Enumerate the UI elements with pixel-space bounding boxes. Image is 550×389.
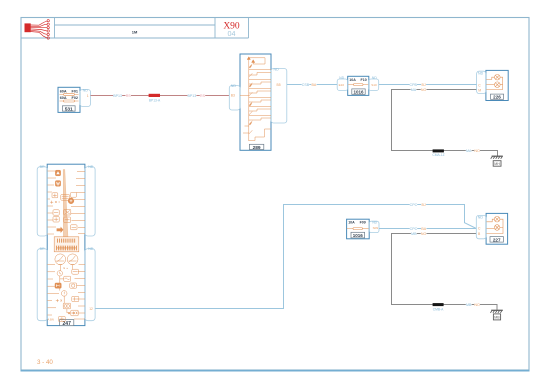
svg-text:10A: 10A <box>349 78 356 82</box>
svg-text:NO: NO <box>421 88 427 92</box>
svg-text:BP13-A: BP13-A <box>149 99 161 103</box>
svg-text:RS: RS <box>200 94 206 98</box>
wire CPC (fuse F09 to 227) <box>379 228 476 230</box>
svg-text:F09: F09 <box>360 220 366 224</box>
svg-text:CMB-A: CMB-A <box>433 308 444 312</box>
wire label MB NO upper <box>411 231 427 236</box>
svg-text:BP13: BP13 <box>113 94 122 98</box>
trunk link lines <box>60 265 73 313</box>
svg-text:04: 04 <box>228 29 236 38</box>
svg-text:NO: NO <box>474 303 480 307</box>
svg-text:MA: MA <box>411 88 417 92</box>
svg-text:BR: BR <box>40 247 45 251</box>
svg-text:S09: S09 <box>373 226 379 230</box>
svg-text:F01: F01 <box>72 89 79 93</box>
icon exclaim <box>61 291 67 297</box>
svg-text:B3: B3 <box>231 94 235 98</box>
pin bracket BR lower left <box>37 249 47 321</box>
lighting switch 289 <box>229 54 286 151</box>
banner divider (connector cell) <box>54 18 56 39</box>
fusebox 1016 (F09) <box>347 219 379 239</box>
pin bracket ND right of 289 <box>271 69 287 124</box>
gauge circles <box>55 254 66 265</box>
svg-text:NO: NO <box>421 232 427 236</box>
wire MA ground run of 226 <box>392 90 498 157</box>
wire label MB NO lower <box>466 302 480 307</box>
wire BP13 (splice to 289) <box>160 95 230 97</box>
frame bottom edge <box>21 370 530 372</box>
icon boxes row 2 <box>53 210 59 215</box>
label 227 <box>490 237 503 243</box>
svg-text:RS: RS <box>126 94 132 98</box>
svg-text:1016: 1016 <box>353 90 364 95</box>
svg-text:NO: NO <box>474 149 480 153</box>
icon clock <box>57 271 62 276</box>
wire label BP13 RS left <box>113 93 131 98</box>
svg-text:MB: MB <box>411 232 417 236</box>
harness 1M box <box>55 24 216 26</box>
wire CPB (fuse F10 to 226) <box>379 84 477 86</box>
svg-text:BJ: BJ <box>421 83 425 87</box>
wire label BP13 RS right <box>187 93 205 98</box>
svg-text:ND: ND <box>478 216 484 220</box>
svg-text:CMA-1Z: CMA-1Z <box>432 153 444 157</box>
svg-text:ND: ND <box>274 67 280 71</box>
icon circle filled right <box>68 198 74 204</box>
splice CMA bar <box>433 149 444 152</box>
svg-text:ND: ND <box>478 72 484 76</box>
svg-text:MA: MA <box>466 149 472 153</box>
svg-text:1M: 1M <box>132 30 138 35</box>
svg-text:S10: S10 <box>371 83 377 87</box>
svg-text:M: M <box>478 88 481 92</box>
right rungs bottom <box>74 265 85 320</box>
svg-text:10A: 10A <box>348 220 355 224</box>
svg-text:BA: BA <box>421 227 426 231</box>
svg-text:F10: F10 <box>361 78 367 82</box>
svg-text:ND: ND <box>231 84 237 88</box>
label 247 <box>60 320 74 326</box>
svg-text:1016: 1016 <box>353 233 364 238</box>
lamp symbols 226 <box>486 74 503 89</box>
icon last box <box>59 316 66 321</box>
right rungs top <box>71 172 85 234</box>
pin bracket ND left of 289 <box>229 86 240 111</box>
connector comb block <box>54 237 79 252</box>
svg-text:531: 531 <box>65 107 73 113</box>
wire CSB (289 to fuse F10) <box>287 84 337 86</box>
icon right box r3 <box>72 296 79 301</box>
label 226 <box>491 94 504 99</box>
svg-text:B5: B5 <box>277 83 281 87</box>
247 internal icons <box>47 170 85 322</box>
splice BP13-A <box>149 94 160 97</box>
pin bracket ND left of 1016 <box>337 79 348 90</box>
wire label CSB BA <box>302 82 317 87</box>
icon right box r1 <box>72 269 79 274</box>
svg-text:289: 289 <box>253 145 261 151</box>
icon W (filled) <box>55 181 60 187</box>
icon warning A (filled) <box>55 170 60 176</box>
ground MB <box>490 310 502 320</box>
wire label CPC BA <box>410 226 427 231</box>
splice CMB bar <box>433 303 444 306</box>
instrument cluster 247 <box>37 164 95 327</box>
pin bracket ND of 531 <box>80 90 91 107</box>
svg-text:ND: ND <box>83 88 89 92</box>
svg-text:ND: ND <box>88 165 94 169</box>
wire MB ground run of 227 <box>392 234 498 310</box>
svg-text:A BN: A BN <box>48 317 54 321</box>
svg-text:MH: MH <box>494 162 500 166</box>
icon wave box <box>64 276 71 281</box>
pin bracket ND of 226 <box>477 71 486 93</box>
svg-text:ND: ND <box>372 76 377 80</box>
wire label MA NO lower <box>466 148 480 153</box>
svg-text:MB: MB <box>494 316 500 320</box>
svg-text:12: 12 <box>89 307 93 311</box>
svg-text:227: 227 <box>493 237 501 242</box>
fuse symbol F10 <box>348 84 368 86</box>
banner bottom line <box>21 37 249 39</box>
svg-text:ND: ND <box>88 247 94 251</box>
wire label CPB BJ <box>409 82 426 87</box>
svg-text:ND: ND <box>339 76 344 80</box>
svg-text:F02: F02 <box>72 96 79 100</box>
289 internal switch chain <box>240 57 271 141</box>
svg-text:CPB: CPB <box>410 83 418 87</box>
pin bracket ND right of F09 <box>369 221 379 232</box>
pin bracket ND of 227 <box>476 215 486 238</box>
svg-text:ND: ND <box>372 221 377 225</box>
fuse F02 symbol <box>60 100 79 102</box>
icon infinity <box>63 303 70 309</box>
icon boxes row 1 <box>52 193 58 198</box>
pin bracket ND right of 1016 <box>369 79 379 90</box>
lamp symbols 227 <box>486 216 503 233</box>
left rungs top <box>47 171 56 234</box>
svg-text:3 - 40: 3 - 40 <box>37 359 53 366</box>
wire label CPC BJ <box>410 202 427 207</box>
fuse F01 symbol <box>60 93 79 95</box>
icon filled arrow <box>57 227 64 233</box>
svg-text:60A: 60A <box>60 96 67 100</box>
plus marks <box>56 299 62 302</box>
fusebox 1016 (F10) <box>337 76 378 95</box>
harness connector icon <box>25 20 50 40</box>
left rungs bottom <box>47 265 59 316</box>
svg-text:CPC: CPC <box>410 227 418 231</box>
svg-text:BP13: BP13 <box>188 94 197 98</box>
svg-text:60A: 60A <box>60 89 67 93</box>
fuse symbol F09 <box>347 228 369 230</box>
label 289 <box>249 144 263 149</box>
X90 title box <box>214 18 216 39</box>
label 1016 <box>351 232 365 238</box>
svg-text:BJ: BJ <box>421 203 425 207</box>
central trunk needle <box>63 170 68 248</box>
lamp unit 227 <box>476 213 507 244</box>
lamp unit 226 <box>477 70 509 100</box>
sparks row <box>50 201 60 204</box>
svg-text:CSB: CSB <box>302 83 310 87</box>
wire CPC long run (247 to 227) <box>95 205 476 309</box>
icon right box r2 <box>70 283 77 288</box>
svg-text:1: 1 <box>87 94 89 98</box>
svg-text:MB: MB <box>466 303 472 307</box>
pin bracket BR upper left <box>37 167 47 236</box>
wire BP13 (531 to splice) <box>91 95 149 97</box>
svg-text:226: 226 <box>493 95 501 100</box>
svg-text:E10: E10 <box>339 83 345 87</box>
fusebox 531 <box>58 87 91 112</box>
pin bracket ND upper right <box>85 167 95 236</box>
ground MH <box>491 156 503 166</box>
wire label MA NO upper <box>411 87 427 92</box>
icon arrow box <box>71 310 78 316</box>
svg-text:CPC: CPC <box>410 203 418 207</box>
gauge tick text <box>64 268 69 270</box>
icon battery filled <box>55 283 61 288</box>
svg-text:BR: BR <box>40 165 45 169</box>
pin bracket ND lower right <box>85 249 95 321</box>
label 1016 <box>352 89 365 94</box>
label 531 <box>62 106 75 111</box>
svg-text:BA: BA <box>312 83 317 87</box>
